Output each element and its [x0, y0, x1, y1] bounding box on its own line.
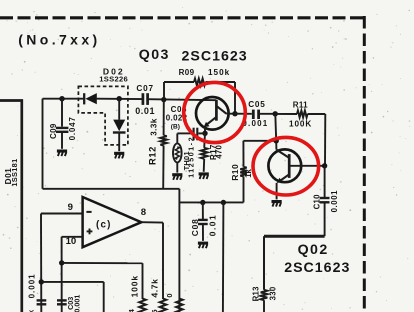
svg-text:0: 0 — [165, 293, 174, 297]
svg-text:R12: R12 — [148, 146, 158, 165]
wire inv node bottom run — [41, 282, 103, 312]
diode D02a horizontal — [84, 93, 97, 104]
ground below C09 — [57, 150, 67, 157]
svg-text:Q02: Q02 — [298, 242, 329, 258]
resistor R09 label — [179, 68, 231, 77]
pin 8 label — [141, 207, 147, 218]
red marker circle Q02 — [253, 137, 319, 195]
svg-text:8: 8 — [141, 207, 147, 218]
capacitor C05 — [235, 100, 275, 128]
wire inverting input — [41, 214, 83, 312]
resistor R11 — [275, 101, 325, 166]
wire mid down — [222, 203, 225, 312]
svg-text:0.01: 0.01 — [135, 106, 155, 116]
transistor Q03 — [196, 97, 235, 133]
wire noninv node to 100k — [62, 263, 143, 299]
wire noninverting input — [62, 237, 83, 312]
node noninv line — [59, 260, 64, 265]
svg-text:3.3k: 3.3k — [150, 118, 159, 136]
transistor Q02 — [268, 149, 324, 199]
diode D02b vertical — [113, 96, 126, 151]
node collector Q03 — [232, 111, 237, 116]
resistor R12 — [148, 100, 167, 189]
ground below Q02 emitter — [272, 200, 282, 207]
wire op-amp output — [141, 222, 163, 299]
svg-text:9: 9 — [68, 202, 73, 213]
node Q02 top junction — [274, 138, 279, 143]
capacitor C09 — [49, 96, 77, 149]
svg-text:2SC1623: 2SC1623 — [284, 260, 350, 276]
ground below R17 — [199, 172, 209, 179]
ground below D02 — [114, 152, 124, 159]
svg-text:330: 330 — [268, 286, 277, 300]
svg-text:112501-2: 112501-2 — [188, 136, 195, 178]
node C08 junction — [200, 200, 205, 205]
node Q02 base junction — [322, 163, 327, 168]
svg-text:C05: C05 — [248, 100, 265, 109]
text (No.7xx) — [18, 32, 100, 48]
svg-text:(B): (B) — [171, 124, 180, 131]
svg-text:R11: R11 — [293, 101, 308, 110]
resistor bottom third — [165, 293, 183, 312]
svg-text:2SC1623: 2SC1623 — [182, 49, 248, 65]
node Q03 emitter — [202, 131, 207, 136]
svg-text:100k: 100k — [130, 275, 140, 297]
svg-text:0.01: 0.01 — [208, 214, 218, 236]
svg-text:C10: C10 — [312, 194, 321, 210]
capacitor C06 — [166, 105, 205, 140]
thermistor TH01 — [173, 133, 195, 177]
resistor R09 feedback loop — [164, 79, 235, 114]
pin 10 label — [66, 236, 77, 247]
node C05 R11 junction — [273, 111, 278, 116]
node base junction — [161, 97, 166, 102]
diode D02 label — [99, 66, 128, 83]
svg-text:C08: C08 — [190, 218, 200, 236]
svg-text:100K: 100K — [289, 119, 312, 128]
transistor Q02 label — [284, 242, 350, 276]
svg-text:0.047: 0.047 — [68, 116, 77, 140]
capacitor C08 — [190, 203, 218, 241]
svg-text:C07: C07 — [136, 84, 153, 93]
svg-text:Q03: Q03 — [139, 47, 170, 63]
svg-text:(c): (c) — [96, 220, 112, 231]
op-amp (c) — [83, 197, 142, 247]
red marker circle Q03 — [184, 82, 246, 142]
transistor Q03 label — [139, 47, 248, 65]
wire into Q02 — [275, 141, 277, 150]
resistor R10 — [230, 141, 253, 203]
svg-text:4.7k: 4.7k — [149, 278, 159, 297]
pin 9 label — [68, 202, 73, 213]
capacitor C10 — [312, 166, 339, 236]
svg-text:R13: R13 — [251, 286, 260, 302]
svg-text:470: 470 — [215, 145, 224, 159]
resistor 100k — [127, 275, 146, 312]
svg-text:0.001: 0.001 — [72, 295, 81, 312]
svg-text:0.001: 0.001 — [330, 190, 339, 213]
svg-text:1SS226: 1SS226 — [99, 75, 128, 84]
diode D01 label — [4, 158, 19, 186]
node inv line — [39, 279, 44, 284]
capacitor C03 — [57, 295, 81, 312]
resistor 4.7k — [149, 278, 166, 312]
capacitor C07 — [135, 84, 155, 116]
node mid junction — [221, 200, 226, 205]
svg-text:150k: 150k — [208, 68, 230, 77]
capacitor 0.001 bottom left — [27, 273, 47, 312]
wire R10 to base node — [243, 140, 276, 142]
block box left — [0, 101, 22, 312]
resistor R13 — [251, 286, 277, 312]
wire top rail — [43, 99, 217, 189]
svg-text:1SS181: 1SS181 — [10, 158, 19, 186]
svg-text:0.001: 0.001 — [27, 273, 36, 298]
wire R12 to mid rail — [43, 189, 244, 312]
ground below C08 — [198, 242, 208, 249]
svg-text:0.001: 0.001 — [242, 119, 268, 128]
ground below TH01 — [172, 173, 182, 180]
svg-text:C09: C09 — [49, 123, 58, 139]
diode D02 dashed outline — [78, 86, 128, 144]
svg-text:(No.7xx): (No.7xx) — [18, 32, 100, 48]
svg-text:R09: R09 — [179, 68, 195, 77]
svg-text:R10: R10 — [230, 164, 240, 181]
wire C10 to R13 — [264, 236, 325, 290]
wire C05 node down — [274, 114, 277, 141]
resistor R17 — [201, 133, 224, 172]
